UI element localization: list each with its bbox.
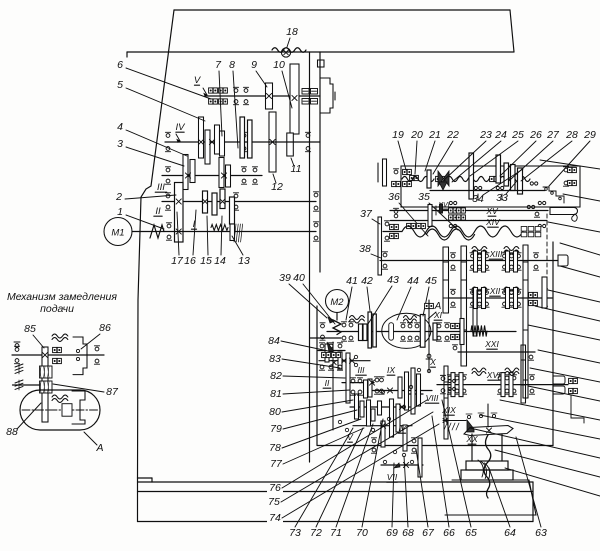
- svg-text:27: 27: [546, 129, 560, 141]
- svg-text:17: 17: [171, 255, 184, 267]
- svg-text:II: II: [325, 378, 330, 388]
- svg-text:84: 84: [268, 335, 280, 347]
- svg-text:36: 36: [388, 191, 400, 203]
- svg-text:XIV: XIV: [485, 217, 501, 227]
- svg-text:X: X: [429, 357, 436, 367]
- svg-text:85: 85: [24, 323, 36, 335]
- svg-text:21: 21: [428, 129, 441, 141]
- svg-text:5: 5: [117, 79, 123, 91]
- svg-text:14: 14: [214, 255, 226, 267]
- svg-text:VII: VII: [387, 472, 398, 482]
- svg-text:83: 83: [269, 353, 281, 365]
- svg-text:81: 81: [270, 388, 282, 400]
- svg-text:16: 16: [184, 255, 196, 267]
- svg-text:Механизм замедления: Механизм замедления: [7, 291, 117, 303]
- svg-text:35: 35: [418, 191, 430, 203]
- svg-text:XI: XI: [433, 310, 443, 320]
- svg-text:22: 22: [446, 129, 459, 141]
- svg-text:86: 86: [99, 322, 111, 334]
- svg-text:25: 25: [511, 129, 524, 141]
- svg-text:20: 20: [410, 129, 423, 141]
- svg-text:69: 69: [386, 527, 398, 539]
- svg-text:III: III: [157, 182, 165, 193]
- svg-text:45: 45: [425, 275, 437, 287]
- svg-text:24: 24: [494, 129, 507, 141]
- svg-text:80: 80: [269, 406, 281, 418]
- svg-text:A: A: [95, 442, 103, 454]
- svg-text:2: 2: [115, 191, 122, 203]
- svg-text:3: 3: [117, 138, 123, 150]
- svg-text:88: 88: [6, 426, 18, 438]
- svg-text:87: 87: [106, 386, 119, 398]
- svg-text:63: 63: [535, 527, 547, 539]
- svg-text:42: 42: [361, 275, 373, 287]
- svg-text:M2: M2: [330, 297, 344, 308]
- svg-text:72: 72: [310, 527, 322, 539]
- svg-text:1: 1: [117, 206, 123, 218]
- svg-text:подачи: подачи: [40, 303, 74, 315]
- svg-text:4: 4: [117, 121, 123, 133]
- svg-text:65: 65: [465, 527, 477, 539]
- svg-text:29: 29: [583, 129, 596, 141]
- svg-text:6: 6: [117, 59, 123, 71]
- svg-text:39: 39: [279, 272, 291, 284]
- svg-text:9: 9: [251, 59, 257, 71]
- svg-text:68: 68: [402, 527, 414, 539]
- svg-text:73: 73: [289, 527, 301, 539]
- svg-text:15: 15: [200, 255, 212, 267]
- svg-text:12: 12: [271, 181, 283, 193]
- svg-text:XV: XV: [485, 206, 499, 216]
- svg-text:VIII: VIII: [426, 393, 439, 403]
- svg-text:70: 70: [356, 527, 368, 539]
- svg-text:66: 66: [443, 527, 455, 539]
- svg-text:26: 26: [529, 129, 542, 141]
- svg-text:44: 44: [407, 275, 419, 287]
- svg-text:III: III: [357, 365, 365, 375]
- svg-text:75: 75: [268, 496, 280, 508]
- svg-text:40: 40: [293, 272, 305, 284]
- svg-text:10: 10: [273, 59, 285, 71]
- svg-text:34: 34: [472, 193, 484, 205]
- svg-text:23: 23: [479, 129, 492, 141]
- svg-text:18: 18: [286, 26, 298, 38]
- svg-text:M1: M1: [111, 228, 124, 239]
- svg-text:37: 37: [360, 208, 373, 220]
- svg-text:13: 13: [238, 255, 250, 267]
- svg-text:74: 74: [269, 512, 281, 524]
- svg-text:79: 79: [270, 423, 282, 435]
- svg-text:XXI: XXI: [484, 339, 499, 349]
- svg-text:82: 82: [270, 370, 282, 382]
- svg-text:XIII: XIII: [489, 249, 503, 259]
- svg-text:43: 43: [387, 274, 399, 286]
- svg-text:41: 41: [346, 275, 358, 287]
- svg-text:71: 71: [330, 527, 342, 539]
- svg-text:76: 76: [269, 482, 281, 494]
- svg-text:64: 64: [504, 527, 516, 539]
- svg-text:28: 28: [565, 129, 578, 141]
- svg-text:II: II: [155, 206, 161, 217]
- svg-text:11: 11: [291, 163, 302, 175]
- svg-text:XII: XII: [489, 286, 501, 296]
- svg-text:8: 8: [229, 59, 235, 71]
- svg-text:67: 67: [422, 527, 435, 539]
- svg-text:19: 19: [392, 129, 404, 141]
- svg-text:IX: IX: [387, 365, 395, 375]
- svg-text:77: 77: [270, 458, 283, 470]
- svg-text:38: 38: [359, 243, 371, 255]
- svg-text:78: 78: [269, 442, 281, 454]
